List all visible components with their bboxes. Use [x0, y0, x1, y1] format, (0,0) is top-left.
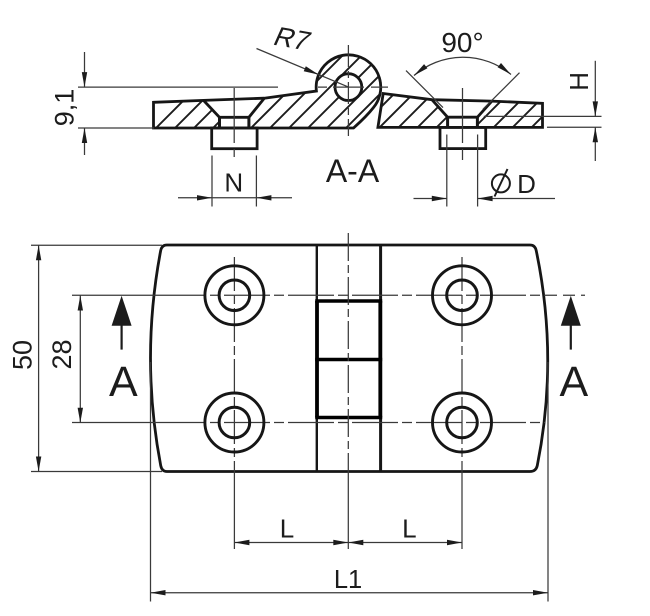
- mounting hole bottom-right (countersink and bore): [433, 393, 492, 452]
- svg-text:L: L: [402, 514, 416, 544]
- mounting hole bottom-left (countersink and bore): [205, 393, 264, 452]
- dimension N (boss width): [178, 156, 292, 207]
- dimension 28 (hole row spacing): [47, 296, 83, 423]
- screw boss left below leaf: [212, 128, 257, 149]
- section arrow A right: [559, 296, 588, 407]
- dimension diameter D (hole diameter): [414, 135, 556, 207]
- dimension 50 (hinge width): [8, 245, 163, 471]
- plan view: hinge body outline: [151, 245, 548, 472]
- svg-text:A-A: A-A: [326, 153, 380, 189]
- right hinge leaf outline (section): [378, 94, 543, 128]
- dimension 9,1 (pin height over leaf bottom): [50, 52, 279, 155]
- section arrow A left: [109, 296, 138, 407]
- centerline: top hole row (section cut line): [72, 294, 585, 296]
- countersink right (90 deg cone and hole walls): [432, 100, 492, 128]
- section view A-A: hatching of right leaf: [360, 28, 650, 128]
- svg-text:A: A: [109, 358, 138, 406]
- centerline: bottom hole row: [72, 422, 545, 424]
- mounting hole top-right (countersink and bore): [433, 266, 492, 325]
- svg-text:N: N: [224, 167, 243, 197]
- countersunk hole cavity right (white mask): [432, 100, 492, 128]
- centerline: pin axis horizontal: [318, 86, 388, 88]
- dimension L left and L right (hole column to pin axis): [234, 514, 462, 546]
- svg-text:D: D: [517, 169, 536, 199]
- section view A-A: hatching of left leaf and knuckle: [156, 28, 465, 128]
- screw boss right below leaf: [440, 127, 486, 148]
- svg-text:28: 28: [47, 339, 77, 369]
- centerline: pin axis vertical: [347, 45, 349, 136]
- radius leader R7: [257, 21, 349, 87]
- countersunk hole cavity left (white mask): [204, 98, 265, 128]
- svg-text:90°: 90°: [441, 27, 483, 58]
- svg-text:H: H: [564, 72, 594, 91]
- value label diameter D: [492, 174, 510, 192]
- centerline: hinge pin axis (plan): [347, 233, 349, 549]
- countersink left (90 deg cone and hole walls): [204, 98, 265, 128]
- angle dimension 90 degrees: [406, 27, 520, 109]
- centerline: right screw axis: [462, 88, 464, 160]
- centerline: left hole column: [233, 257, 235, 549]
- svg-text:A: A: [559, 358, 588, 406]
- barrel edge line left: [316, 245, 318, 472]
- svg-text:L1: L1: [334, 566, 362, 594]
- dimension L1 (overall length): [151, 362, 549, 602]
- centerline: left screw axis: [233, 88, 235, 157]
- svg-text:L: L: [280, 514, 294, 544]
- mounting hole top-left (countersink and bore): [205, 266, 264, 325]
- barrel edge line right: [379, 245, 382, 472]
- centerline: right hole column: [461, 257, 463, 549]
- left hinge leaf outline with knuckle (section): [154, 55, 381, 128]
- dimension H (leaf thickness): [484, 61, 602, 161]
- svg-text:50: 50: [8, 340, 38, 370]
- knuckle segment joints (middle knuckle box): [315, 301, 382, 418]
- hinge pin hole: [335, 74, 362, 101]
- svg-text:9,1: 9,1: [50, 89, 80, 127]
